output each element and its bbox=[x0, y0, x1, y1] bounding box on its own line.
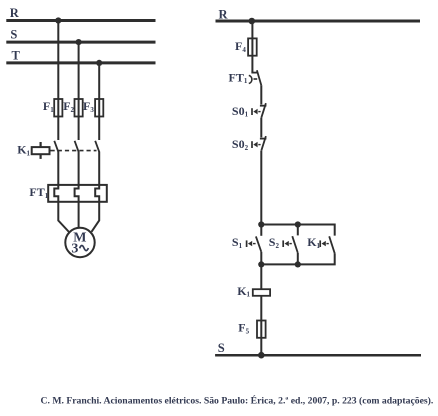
svg-text:S1: S1 bbox=[232, 235, 243, 250]
svg-text:F1: F1 bbox=[43, 99, 54, 114]
svg-text:F2: F2 bbox=[63, 99, 74, 114]
svg-text:K1: K1 bbox=[17, 143, 30, 158]
svg-text:K1: K1 bbox=[237, 284, 250, 299]
svg-text:S2: S2 bbox=[269, 235, 280, 250]
svg-text:C. M. Franchi. Acionamentos el: C. M. Franchi. Acionamentos elétricos. S… bbox=[41, 395, 434, 407]
svg-text:S: S bbox=[218, 341, 225, 355]
svg-text:S01: S01 bbox=[232, 104, 249, 119]
svg-text:K1: K1 bbox=[307, 235, 320, 250]
svg-text:F3: F3 bbox=[83, 99, 94, 114]
svg-text:F5: F5 bbox=[238, 321, 249, 336]
svg-text:R: R bbox=[219, 7, 229, 21]
svg-text:S02: S02 bbox=[232, 137, 249, 152]
svg-text:FT1: FT1 bbox=[29, 185, 48, 200]
svg-text:S: S bbox=[10, 27, 17, 41]
svg-text:R: R bbox=[10, 6, 20, 20]
svg-text:3: 3 bbox=[71, 242, 78, 257]
svg-text:FT1: FT1 bbox=[229, 70, 248, 85]
svg-text:T: T bbox=[12, 48, 21, 62]
svg-text:F4: F4 bbox=[235, 39, 246, 54]
